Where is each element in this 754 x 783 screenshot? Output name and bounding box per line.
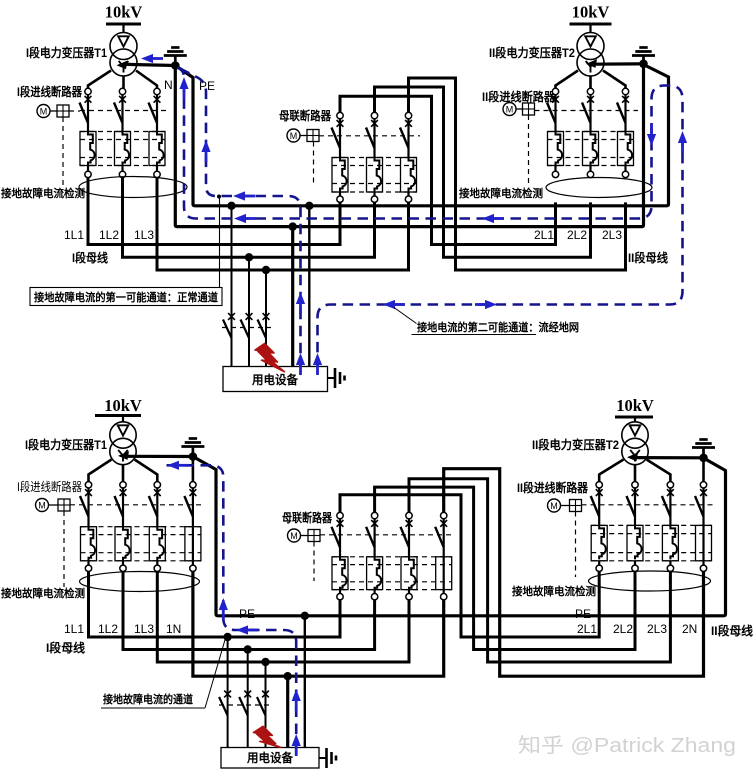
current transformer T2 pole 2 (lower) [635, 525, 642, 559]
current transformer T1 pole 2 [123, 132, 130, 166]
breaker blade T2 pole 2 [582, 103, 591, 124]
dashed vertical from T2 M-box (lower) [575, 512, 577, 578]
current transformer bus tie pole 1 (lower) [340, 557, 347, 591]
breaker pole contact T1 pole 1 [85, 88, 92, 102]
ground symbol right of load box (lower) [319, 748, 336, 768]
CT relay wiring box T1 (per-pole frames with dashed links) [80, 132, 165, 166]
svg-text:用电设备: 用电设备 [251, 372, 299, 387]
CT secondary terminal T2 pole 1 (lower) [596, 565, 602, 571]
breaker pole contact T2 pole 1 [552, 88, 559, 102]
svg-text:10kV: 10kV [105, 3, 143, 22]
wire bus tie pole 2 through CT (lower) [374, 519, 376, 557]
CT secondary terminal T1 pole 3 [154, 171, 160, 177]
svg-text:M: M [290, 531, 298, 541]
blue arrow up at load on normal path [296, 353, 305, 365]
dashed interlock line load breakers (lower) [219, 704, 272, 706]
CT relay wiring box T1 lower (per-pole frames with dashed links) [81, 527, 201, 561]
current transformer T2 pole 1 [556, 132, 563, 166]
svg-text:10kV: 10kV [572, 3, 610, 22]
blue arrow up on T2 earth leg [678, 131, 687, 143]
wire load feeder N (lower) [286, 676, 289, 747]
junction dot T1 neutral-earth node [171, 61, 180, 70]
svg-text:M: M [40, 107, 48, 117]
CT secondary terminal T2 pole 4 (lower) [700, 565, 706, 571]
svg-text:2L1: 2L1 [534, 228, 554, 242]
node load feeder L1 tap [227, 202, 235, 210]
current transformer T1 pole 1 (lower) [89, 527, 96, 561]
current transformer bus tie pole 3 (lower) [409, 557, 416, 591]
blue arrow down on T2 earth leg [647, 134, 656, 146]
blue dashed path: fault current via PE conductor (lower) [167, 465, 297, 747]
svg-text:M: M [506, 105, 514, 115]
busbar 1L3 (lower) [157, 572, 409, 663]
wire T2 pole 1 through CT (lower) [598, 488, 600, 525]
ground symbol right of load box (top) [328, 368, 345, 388]
svg-text:1L1: 1L1 [64, 622, 84, 636]
svg-text:I段进线断路器: I段进线断路器 [17, 479, 82, 494]
motor operator bus tie breaker (lower) (M circle and interlock box) [288, 529, 321, 542]
wire T2 pole 3 through CT (lower) [669, 488, 671, 525]
current transformer T1 pole 3 (lower) [157, 527, 164, 561]
breaker pole contact bus tie pole 2 (lower) [371, 512, 378, 526]
dashed vertical from T2 M-box [528, 115, 530, 187]
wire T2 neutral to earth junction with arrowhead [586, 59, 644, 68]
ground symbol at T1 earthing (lower) [181, 439, 204, 455]
wire N bus linking T1 and T2 neutral points [175, 65, 643, 227]
current transformer T1 pole 2 (lower) [123, 527, 130, 561]
blue arrow toward T1 neutral point [141, 54, 153, 63]
blue arrow left toward T1 earth (lower) [167, 461, 179, 470]
svg-text:接地电流的第二可能通道：流经地网: 接地电流的第二可能通道：流经地网 [417, 320, 579, 334]
pointer line from first-path label [219, 197, 221, 288]
breaker blade bus tie pole 3 [400, 128, 409, 149]
CT secondary terminal T2 pole 1 [552, 171, 558, 177]
dashed vertical from bus tie M-box [313, 142, 315, 185]
breaker pole contact T1 pole 3 [154, 88, 161, 102]
dashed interlock line T1 breaker (lower) [70, 504, 204, 506]
breaker blade T2 pole 3 [617, 103, 626, 124]
current transformer T2 pole 3 (lower) [670, 525, 677, 559]
CT secondary terminal T2 pole 2 (lower) [632, 565, 638, 571]
svg-text:母联断路器: 母联断路器 [279, 108, 332, 123]
motor operator T2 breaker (lower) (M circle and interlock box) [548, 499, 582, 512]
node load feeder L1 tap (lower) [223, 633, 231, 641]
wire T2 N pole from earth junction (lower) [702, 458, 705, 482]
svg-text:2L2: 2L2 [567, 228, 587, 242]
busbar 2L2 (lower) [375, 487, 635, 649]
busbar 2L2 (II section) [375, 87, 591, 257]
CT secondary terminal bus tie pole 2 (lower) [371, 594, 377, 600]
wire T1 pole 3 through CT (lower) [156, 488, 158, 527]
breaker pole contact T2 pole 2 [587, 88, 594, 102]
svg-text:II段母线: II段母线 [628, 250, 668, 265]
breaker blade T1 pole 1 (lower) [80, 496, 89, 517]
svg-text:M: M [38, 501, 46, 511]
wire T1 N pole from earth junction (lower) [192, 457, 195, 482]
current transformer bus tie pole 3 [408, 158, 415, 192]
current transformer bus tie pole 2 (lower) [375, 557, 382, 591]
CT secondary terminal T2 pole 2 [587, 171, 593, 177]
dashed link M-box to interlock line [69, 110, 80, 112]
label box: first possible path of ground fault current [30, 288, 222, 306]
transformer T1 (lower): 10kV source bar and delta-wye circles [95, 396, 142, 465]
wire load feeder L1 [231, 206, 233, 367]
wire T1 neutral to earth junction with arrowhead [117, 61, 176, 70]
wire T2 neutral to earth junction with arrowhead (lower) [627, 453, 704, 462]
dashed interlock line T1 breaker [80, 110, 169, 112]
current transformer bus tie pole 1 [340, 158, 347, 192]
svg-text:N: N [164, 78, 173, 92]
wire T1 pole 1 through CT (lower) [87, 488, 89, 527]
wire load feeder L3 [265, 270, 267, 367]
busbar 1L1 (lower) [89, 572, 341, 638]
wire bus tie pole 2 through CT [373, 119, 375, 158]
CT secondary terminal bus tie pole 1 [337, 196, 343, 202]
ground symbol at T2 earthing (lower) [692, 440, 715, 456]
svg-text:II段进线断路器: II段进线断路器 [482, 89, 556, 104]
wire T2 pole 2 through CT (lower) [634, 488, 636, 525]
svg-text:PE: PE [239, 607, 255, 621]
svg-text:M: M [550, 501, 558, 511]
breaker pole contact T2 pole 1 (lower) [596, 482, 603, 496]
svg-text:接地故障电流检测: 接地故障电流检测 [459, 186, 543, 200]
busbar 1L1 (I section) [88, 178, 340, 245]
busbar 2L3 (II section) [409, 78, 626, 270]
svg-text:II段进线断路器: II段进线断路器 [517, 480, 589, 495]
ground symbol at T2 neutral earthing [632, 48, 655, 64]
current transformer T2 pole 3 [626, 132, 633, 166]
svg-text:接地故障电流检测: 接地故障电流检测 [1, 586, 85, 600]
breaker blade bus tie pole 4 (lower) [435, 527, 444, 548]
wire T1 N pole (lower) [192, 488, 194, 565]
blue arrow left on ground grid path [383, 300, 395, 309]
wire T1 neutral to earth junction with arrowhead (lower) [118, 451, 193, 460]
breaker pole contact T2 pole 4 (lower) [700, 482, 707, 496]
motor operator T1 breaker (M circle and interlock box) [37, 105, 69, 118]
transformer T1: 10kV source bar and delta-wye circles [105, 3, 143, 77]
CT secondary terminal bus tie pole 4 (lower) [441, 594, 447, 600]
wire bus tie N pole (lower) [443, 519, 445, 594]
wire load feeder PE (lower) [304, 616, 306, 748]
svg-text:1L2: 1L2 [98, 622, 118, 636]
junction dot T2 neutral-earth node (lower) [699, 454, 708, 463]
wire bus tie pole 1 through CT [339, 119, 341, 158]
svg-text:接地故障电流的第一可能通道：正常通道: 接地故障电流的第一可能通道：正常通道 [34, 290, 218, 304]
blue arrow up on PE riser [179, 77, 188, 89]
breaker blade bus tie pole 2 (lower) [366, 527, 375, 548]
blue arrow left on PE run (lower) [236, 625, 248, 634]
node load feeder PE tap (lower) [301, 612, 309, 620]
load branch breaker at x=231.5 [223, 313, 235, 338]
busbar 1N (lower) [193, 572, 444, 677]
svg-text:10kV: 10kV [104, 396, 142, 415]
load equipment box (lower) [221, 748, 319, 769]
motor operator T1 breaker (lower) (M circle and interlock box) [36, 499, 71, 512]
breaker pole contact T1 pole 3 (lower) [154, 482, 161, 496]
breaker pole contact bus tie pole 1 (lower) [337, 512, 344, 526]
breaker pole contact T2 pole 3 (lower) [667, 482, 674, 496]
blue arrow up on PE riser (lower) [219, 598, 228, 610]
load branch breaker at x=249 [241, 313, 253, 338]
svg-text:I段电力变压器T1: I段电力变压器T1 [25, 437, 107, 452]
svg-text:I段母线: I段母线 [46, 640, 85, 655]
svg-text:接地故障电流检测: 接地故障电流检测 [1, 186, 85, 200]
dashed interlock line bus tie [319, 135, 420, 137]
breaker pole contact T1 pole 1 (lower) [85, 482, 92, 496]
svg-text:PE: PE [575, 607, 591, 621]
svg-text:母联断路器: 母联断路器 [282, 510, 333, 525]
wire bus tie pole 1 through CT (lower) [339, 519, 341, 557]
breaker pole contact bus tie pole 4 (lower) [440, 512, 447, 526]
busbar 1L3 (I section) [157, 178, 409, 270]
node load feeder L2 tap (lower) [244, 645, 252, 653]
breaker pole contact bus tie pole 3 [405, 112, 412, 126]
current transformer T2 pole 2 [591, 132, 598, 166]
wire T2 secondary fan (lower) [599, 460, 670, 482]
svg-text:2L3: 2L3 [647, 622, 667, 636]
CT secondary terminal bus tie pole 3 [405, 196, 411, 202]
CT secondary terminal T1 pole 1 (lower) [85, 565, 91, 571]
busbar 2L3 (lower) [409, 479, 670, 662]
blue arrow up on PE conductor [201, 140, 210, 152]
wire T1 secondary fan (lower) [89, 460, 158, 482]
current transformer bus tie pole 2 [374, 158, 381, 192]
svg-text:接地故障电流的通道: 接地故障电流的通道 [103, 692, 193, 706]
breaker blade T2 pole 1 (lower) [591, 496, 600, 517]
ground fault current detection ellipse T2 [546, 178, 652, 198]
svg-text:II段电力变压器T2: II段电力变压器T2 [532, 437, 619, 452]
wire T2 secondary fan to incoming breaker poles [556, 71, 626, 89]
svg-text:M: M [290, 131, 298, 141]
breaker blade T1 pole 1 [80, 103, 89, 124]
node load feeder N tap [289, 222, 297, 230]
busbar 2N (lower) [444, 469, 704, 677]
ground fault current detection ellipse T2 (lower) [589, 571, 711, 591]
dashed interlock line T2 breaker [535, 110, 639, 112]
breaker blade bus tie pole 3 (lower) [401, 527, 410, 548]
breaker blade bus tie pole 1 (lower) [332, 527, 341, 548]
wire T1 secondary fan to incoming breaker poles [88, 71, 157, 89]
wire load feeder PE [308, 206, 310, 367]
wire PE bus linking earth electrodes [175, 65, 668, 206]
load branch breaker (lower) at x=247.7 [239, 691, 251, 716]
breaker pole contact T1 pole 2 [119, 88, 126, 102]
fault lightning bolt (lower) [254, 726, 281, 747]
wire T2 pole 3 through CT [624, 95, 626, 132]
node load feeder L2 tap [245, 253, 253, 261]
CT secondary terminal T2 pole 3 (lower) [667, 565, 673, 571]
CT secondary terminal T1 pole 3 (lower) [154, 565, 160, 571]
svg-text:II段母线: II段母线 [711, 623, 753, 638]
label leader: second possible path via ground grid [394, 308, 417, 324]
breaker pole contact T1 pole 4 (lower) [190, 482, 197, 496]
fault lightning bolt (top) [255, 344, 285, 372]
current transformer T2 pole 1 (lower) [599, 525, 606, 559]
breaker pole contact bus tie pole 3 (lower) [406, 512, 413, 526]
CT relay wiring box bus tie (per-pole frames with dashed links) [332, 158, 417, 193]
node load feeder PE tap [305, 202, 313, 210]
current transformer T1 pole 3 [157, 132, 164, 166]
blue arrow left on earth-loop path near T2 [482, 214, 494, 223]
breaker blade T1 pole 2 (lower) [115, 496, 124, 517]
svg-text:I段电力变压器T1: I段电力变压器T1 [26, 45, 107, 60]
breaker pole contact T2 pole 2 (lower) [632, 482, 639, 496]
load branch breaker (lower) at x=227.6 [219, 691, 231, 716]
blue arrow up at load (lower) [292, 734, 301, 746]
node pointer on normal path [217, 195, 221, 199]
dashed vertical from T1 M-box (lower) [63, 511, 65, 587]
blue dashed path: fault current loop via earth grid [177, 68, 683, 367]
breaker blade T1 pole 3 [149, 103, 158, 124]
wire bus tie pole 3 through CT [407, 119, 409, 158]
transformer T2 (lower): 10kV source bar and delta-wye circles [615, 396, 654, 465]
CT secondary terminal T2 pole 3 [622, 171, 628, 177]
wire load feeder L1 (lower) [227, 637, 229, 748]
breaker pole contact bus tie pole 1 [337, 112, 344, 126]
wire T1 pole 3 through CT [156, 95, 158, 132]
dashed vertical from bus tie M-box (lower) [313, 542, 315, 582]
blue arrow up at load on earth-loop path [313, 353, 322, 365]
node load feeder N tap (lower) [284, 672, 292, 680]
wire T2 pole 1 through CT [554, 95, 556, 132]
blue arrow up mid on load PE drop (lower) [292, 689, 301, 701]
breaker blade bus tie pole 2 [366, 128, 375, 149]
wire PE bus (lower) linking earth electrodes [193, 457, 726, 616]
CT relay wiring box bus tie lower (per-pole frames with dashed links) [332, 557, 452, 590]
svg-text:II段电力变压器T2: II段电力变压器T2 [489, 45, 575, 60]
wire bus tie pole 3 through CT (lower) [408, 519, 410, 557]
wire T2 pole 2 through CT [589, 95, 591, 132]
ground symbol at T1 neutral earthing [164, 48, 187, 64]
dashed interlock line T2 breaker (lower) [582, 504, 716, 506]
junction dot T1 neutral-earth node (lower) [189, 452, 198, 461]
junction dot T2 neutral-earth node [639, 60, 648, 69]
blue arrow left on normal path [233, 191, 245, 200]
motor operator T2 breaker (M circle and interlock box) [503, 103, 535, 116]
svg-text:2N: 2N [682, 622, 697, 636]
wire T1 pole 2 through CT (lower) [122, 488, 124, 527]
svg-text:1L1: 1L1 [64, 228, 84, 242]
label leader: path of ground fault current (lower) [101, 707, 205, 709]
breaker blade T2 pole 2 (lower) [627, 496, 636, 517]
breaker pole contact T2 pole 3 [622, 88, 629, 102]
transformer T2: 10kV source bar and delta-wye circles [570, 3, 612, 77]
breaker blade T1 pole 4 (lower) [184, 496, 193, 517]
motor operator bus tie breaker (M circle and interlock box) [287, 129, 319, 142]
ground fault current detection ellipse T1 [79, 177, 187, 198]
wire load feeder N [291, 227, 294, 367]
svg-text:2L1: 2L1 [577, 622, 597, 636]
breaker blade T1 pole 2 [114, 103, 123, 124]
CT secondary terminal T1 pole 1 [85, 171, 91, 177]
wire T1 pole 1 through CT [87, 95, 89, 132]
blue arrow up toward load on normal path [296, 292, 305, 304]
breaker blade T2 pole 4 (lower) [695, 496, 704, 517]
CT secondary terminal T1 pole 4 (lower) [190, 565, 196, 571]
CT relay wiring box T2 lower (per-pole frames with dashed links) [591, 525, 711, 560]
dashed vertical from T1 M-box [62, 117, 64, 187]
busbar 2L1 (II section) [340, 96, 556, 244]
blue dashed path: fault current via PE conductor (normal path) [180, 69, 301, 367]
CT secondary terminal bus tie pole 2 [371, 196, 377, 202]
breaker blade T2 pole 3 (lower) [662, 496, 671, 517]
load branch breaker at x=266 [258, 313, 270, 338]
dashed interlock line bus tie (lower) [320, 534, 455, 536]
CT secondary terminal T1 pole 2 [119, 171, 125, 177]
CT secondary terminal bus tie pole 1 (lower) [337, 594, 343, 600]
breaker pole contact bus tie pole 2 [371, 112, 378, 126]
CT secondary terminal bus tie pole 3 (lower) [406, 594, 412, 600]
wire T1 pole 2 through CT [121, 95, 123, 132]
CT relay wiring box T2 (per-pole frames with dashed links) [548, 132, 634, 166]
svg-text:接地故障电流检测: 接地故障电流检测 [512, 584, 596, 598]
current transformer T1 pole 1 [88, 132, 95, 166]
busbar 1L2 (lower) [123, 572, 375, 650]
svg-text:知乎 @Patrick Zhang: 知乎 @Patrick Zhang [518, 734, 736, 757]
svg-text:I段进线断路器: I段进线断路器 [17, 84, 83, 99]
svg-text:1L3: 1L3 [134, 228, 154, 242]
breaker blade T2 pole 1 [547, 103, 556, 124]
dashed interlock line load breakers [222, 327, 271, 329]
blue arrow right on ground grid path [485, 300, 497, 309]
breaker pole contact T1 pole 2 (lower) [120, 482, 127, 496]
svg-text:1N: 1N [166, 622, 181, 636]
node load feeder L3 tap (lower) [261, 658, 269, 666]
svg-text:10kV: 10kV [616, 396, 654, 415]
svg-text:I段母线: I段母线 [72, 250, 108, 265]
svg-text:1L3: 1L3 [134, 622, 154, 636]
svg-text:1L2: 1L2 [99, 228, 119, 242]
wire T2 N pole (lower) [702, 488, 704, 565]
load branch breaker (lower) at x=265.5 [257, 691, 269, 716]
busbar 2L1 (lower) [340, 495, 599, 637]
ground fault current detection ellipse T1 (lower) [80, 572, 200, 592]
load equipment box (top) [223, 367, 328, 392]
busbar 1L2 (I section) [123, 178, 375, 258]
wire load feeder L3 (lower) [265, 662, 267, 748]
wire load feeder L2 (lower) [247, 650, 249, 748]
svg-text:2L3: 2L3 [602, 228, 622, 242]
node load feeder L3 tap [262, 266, 270, 274]
CT secondary terminal T1 pole 2 (lower) [120, 565, 126, 571]
blue arrow left on earth-loop path near T1 [234, 214, 246, 223]
breaker blade bus tie pole 1 [332, 128, 341, 149]
svg-text:用电设备: 用电设备 [246, 750, 294, 765]
wire load feeder L2 [248, 257, 250, 366]
breaker blade T1 pole 3 (lower) [149, 496, 158, 517]
svg-text:2L2: 2L2 [613, 622, 633, 636]
